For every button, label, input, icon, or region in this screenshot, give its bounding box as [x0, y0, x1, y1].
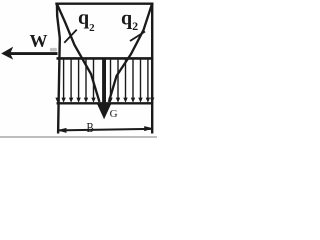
- svg-text:G: G: [110, 108, 118, 120]
- tick on right sling line: [130, 32, 145, 42]
- left edge arrowhead: [55, 98, 59, 103]
- load bottom line: [57, 102, 154, 104]
- dimension line B: [59, 129, 151, 131]
- faint scan line at bottom: [0, 136, 157, 138]
- svg-text:W: W: [30, 31, 48, 51]
- dimension arrowhead right: [144, 126, 153, 131]
- wall right edge: [151, 3, 153, 134]
- svg-text:B: B: [87, 121, 94, 136]
- sling line q2 right: [109, 4, 152, 102]
- scan smudge near wall edge: [50, 48, 57, 52]
- wall left edge: [57, 3, 60, 134]
- weight G arrowhead: [97, 104, 111, 119]
- dimension arrowhead left: [57, 128, 67, 133]
- load top line: [57, 57, 154, 60]
- force W arrowhead: [1, 47, 13, 60]
- distributed load arrow shafts: [64, 59, 148, 99]
- distributed load arrowheads: [55, 98, 154, 103]
- sling line q2 left: [57, 4, 100, 102]
- wall top edge: [55, 3, 153, 5]
- weight G thick arrow shaft: [102, 58, 106, 108]
- force W arrow shaft: [9, 52, 58, 55]
- right edge arrowhead: [150, 98, 154, 103]
- tick on left sling line: [64, 30, 76, 43]
